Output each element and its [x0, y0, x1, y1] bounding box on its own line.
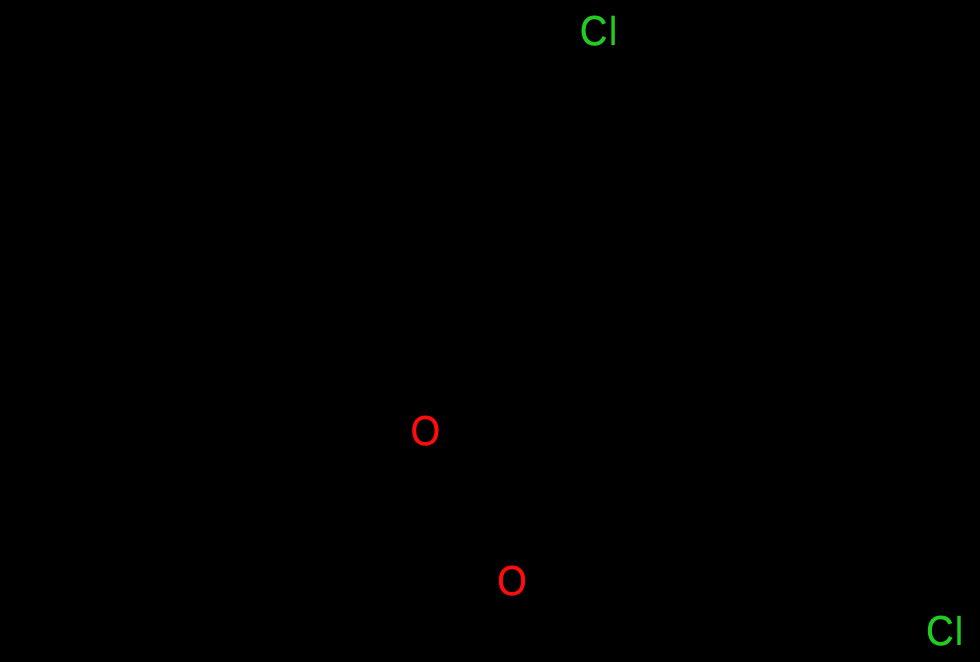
svg-text:O: O [411, 408, 441, 454]
atom label Cl (top, chlorine) [580, 8, 615, 54]
svg-text:C: C [926, 608, 953, 654]
atom label O (carbonyl oxygen) [497, 558, 527, 604]
svg-text:O: O [497, 558, 527, 604]
atom label Cl (bottom right, chlorine) [926, 608, 961, 654]
svg-text:C: C [580, 8, 607, 54]
atom label O (ester oxygen) [411, 408, 441, 454]
